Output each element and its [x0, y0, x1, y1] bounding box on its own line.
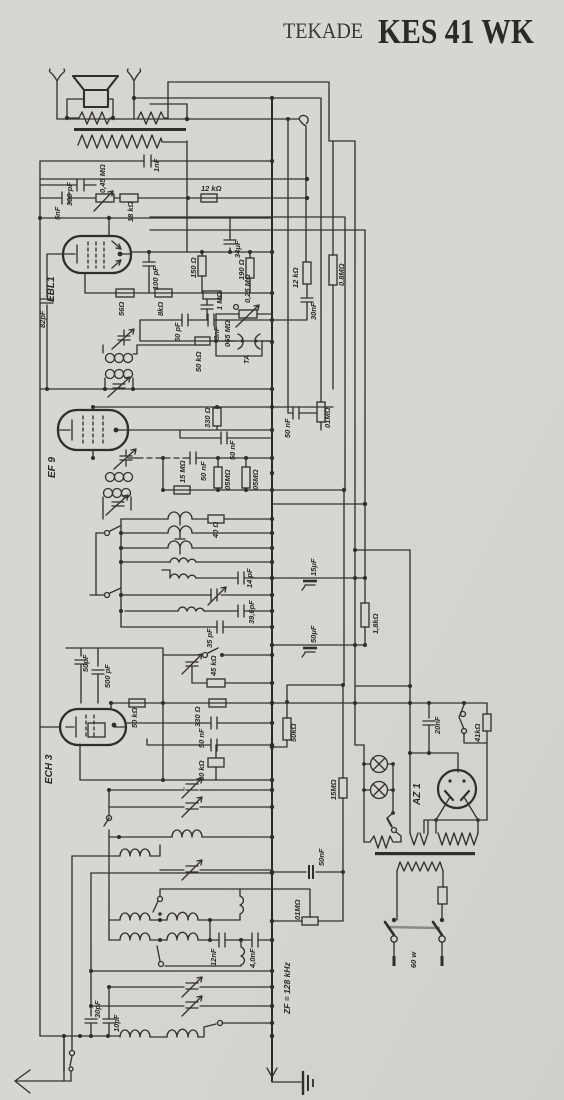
- node dot speaker right: [111, 116, 115, 120]
- svg-text:AZ 1: AZ 1: [412, 783, 423, 806]
- svg-text:KES 41 WK: KES 41 WK: [378, 12, 534, 51]
- tube EF9 bottom lead: [92, 450, 94, 458]
- capacitor 1nF: [144, 155, 151, 167]
- wire row y702 power: [272, 702, 487, 704]
- wire row y533: [121, 532, 272, 534]
- capacitor 10pF: [103, 1019, 115, 1023]
- wire riser x187: [186, 104, 188, 119]
- svg-text:1nF: 1nF: [152, 158, 161, 172]
- svg-text:1,8kΩ: 1,8kΩ: [371, 613, 380, 634]
- wire row y780: [80, 779, 272, 781]
- svg-text:100 pF: 100 pF: [151, 266, 160, 290]
- capacitor 5nF: [40, 192, 95, 204]
- wire row y1006: [91, 1005, 272, 1007]
- IF1 trimmer cap: [112, 329, 134, 349]
- svg-text:330 Ω: 330 Ω: [193, 706, 202, 727]
- wire riser x168: [167, 82, 169, 118]
- wire row y252 anode: [131, 251, 272, 253]
- capacitor 30nF: [272, 284, 313, 320]
- coil L4: [170, 558, 196, 562]
- coil L1: [168, 512, 192, 525]
- svg-text:065 MΩ: 065 MΩ: [223, 320, 232, 347]
- svg-text:0,45 MΩ: 0,45 MΩ: [98, 164, 107, 193]
- svg-text:4,0nF: 4,0nF: [248, 948, 257, 969]
- wire row y987: [109, 986, 272, 988]
- svg-text:10pF: 10pF: [112, 1014, 121, 1032]
- resistor 05MOhm a: [217, 458, 219, 467]
- resistor 190Ohm vertical: [249, 252, 251, 293]
- wire row y940: [109, 939, 272, 941]
- vertical x109 lower: [108, 987, 110, 1036]
- resistor 41kOhm: [483, 714, 491, 731]
- svg-text:34μF: 34μF: [233, 240, 242, 258]
- svg-text:EF 9: EF 9: [47, 456, 58, 478]
- left rail x40: [39, 161, 41, 1036]
- vertical x109 osc: [72, 837, 109, 1050]
- switch S3: [163, 648, 218, 655]
- resistor 40Ohm: [208, 515, 224, 523]
- coil osc2b: [167, 932, 198, 940]
- electrolytic 34uF: [224, 218, 236, 252]
- svg-text:50 pF: 50 pF: [173, 322, 182, 342]
- svg-text:12nF: 12nF: [209, 948, 218, 966]
- svg-text:14 pF: 14 pF: [245, 568, 254, 588]
- tube AZ1: [438, 770, 476, 808]
- link x210: [209, 920, 211, 940]
- svg-text:41kΩ: 41kΩ: [473, 723, 482, 743]
- node dots y252: [147, 250, 151, 254]
- coil L6: [178, 607, 204, 611]
- capacitor 39,6pF: [238, 605, 244, 617]
- wire row y627: [121, 626, 272, 628]
- svg-text:TEKADE: TEKADE: [283, 18, 363, 43]
- lamp feed wire y753: [410, 753, 458, 772]
- svg-text:0,25 MΩ: 0,25 MΩ: [243, 274, 252, 303]
- antenna arrow bottom: [15, 1036, 71, 1093]
- coil bank dots: [119, 531, 123, 535]
- capacitor 50nF a: [180, 430, 272, 444]
- capacitor 35pF: [217, 621, 223, 633]
- svg-text:56Ω: 56Ω: [117, 302, 126, 316]
- resistor 50kOhm bus: [283, 718, 291, 740]
- IF2 winding bottom: [104, 489, 113, 498]
- svg-text:50μF: 50μF: [309, 625, 318, 643]
- electrolytic cap: [201, 299, 213, 320]
- right vertical x283: [287, 119, 289, 413]
- IF2 winding top: [106, 473, 115, 482]
- capacitor 40nF: [252, 933, 258, 947]
- right vertical x367: [150, 230, 365, 645]
- wire row y342: [140, 320, 272, 341]
- tube ECH3 bottom lead: [79, 744, 81, 780]
- svg-text:15μF: 15μF: [309, 558, 318, 576]
- wire row y837: [109, 830, 272, 837]
- tube bottom lead: [84, 273, 86, 293]
- wire row y172: [40, 178, 307, 180]
- wire row y293: [85, 292, 272, 294]
- resistor 330Ohm b: [209, 699, 226, 707]
- svg-text:05MΩ: 05MΩ: [223, 469, 232, 490]
- wire row y920: [109, 919, 240, 921]
- capacitor 500pF: [92, 648, 104, 703]
- resistor 18kOhm: [120, 194, 138, 202]
- lamp 1: [371, 756, 388, 773]
- tube EBL1: [63, 236, 131, 273]
- dial coil zigzag: [78, 135, 187, 148]
- coil bt1: [120, 1030, 150, 1037]
- wire row y119: [57, 118, 272, 120]
- switch S5: [158, 897, 163, 902]
- capacitor 50nF right: [288, 407, 305, 419]
- resistor 30kOhm: [208, 758, 224, 767]
- switch S10: [387, 813, 393, 818]
- svg-text:01MΩ: 01MΩ: [323, 407, 332, 428]
- svg-text:1 MΩ: 1 MΩ: [215, 291, 224, 310]
- wire row y578: [170, 577, 272, 579]
- resistor 01MOhm right: [317, 402, 325, 422]
- svg-text:15MΩ: 15MΩ: [329, 779, 338, 800]
- node dot tube top: [107, 216, 111, 220]
- resistor 05MOhm b: [242, 467, 250, 488]
- coil bt2: [150, 1036, 167, 1038]
- IF1 winding top: [102, 345, 104, 353]
- capacitor 3nF: [208, 314, 214, 326]
- capacitor 50pF: [182, 314, 188, 326]
- mains pin L: [393, 942, 395, 956]
- heater winding c: [438, 833, 478, 845]
- ferrite bar: [74, 128, 186, 131]
- switch S1: [96, 526, 120, 533]
- left rail bottom link: [40, 1036, 64, 1071]
- IF2 trimmer 2: [106, 495, 128, 515]
- wire row y82 to right corner: [168, 82, 410, 833]
- wire row y548: [121, 547, 272, 549]
- capacitor 50nF mains: [272, 871, 343, 873]
- wire row y104: [150, 104, 333, 255]
- trimmer T2: [182, 778, 202, 798]
- electrolytic 50uF: [303, 647, 317, 650]
- wire row y790: [109, 789, 272, 791]
- wire row y98: [134, 97, 320, 99]
- bus junction dots extra: [270, 291, 274, 295]
- coil L7: [172, 830, 202, 837]
- svg-text:45 kΩ: 45 kΩ: [209, 655, 218, 677]
- switch S2: [90, 588, 121, 595]
- wire osc feed to 01MOhm: [240, 889, 310, 917]
- switch S6: [159, 962, 164, 967]
- resistor 50kOhm IF: [195, 337, 210, 345]
- wire row y595 trimmer: [121, 594, 272, 596]
- switch S4: [104, 790, 109, 826]
- osc vertical coil b: [165, 940, 244, 966]
- svg-text:50 nF: 50 nF: [228, 440, 237, 460]
- resistor 01MOhm mains: [302, 917, 318, 925]
- svg-text:50kΩ: 50kΩ: [289, 723, 298, 742]
- capacitor 82pF: [41, 254, 63, 389]
- coil osc1b: [167, 912, 198, 920]
- lamp rail right: [392, 764, 394, 813]
- wire row y430: [128, 429, 272, 431]
- switch S8: [70, 1051, 75, 1056]
- switch S7: [198, 1024, 216, 1037]
- wire row y490: [163, 489, 344, 491]
- osc top loop y889: [160, 889, 240, 896]
- coil osc2a: [120, 933, 150, 940]
- IF1 trimmer cap 2: [108, 377, 130, 397]
- lamp rail wire y745: [355, 745, 364, 842]
- tube ECH3: [60, 709, 126, 745]
- node column x160: [158, 918, 162, 922]
- svg-text:50 nF: 50 nF: [283, 418, 292, 438]
- svg-text:50 kΩ: 50 kΩ: [130, 707, 139, 728]
- trimmer cap osc: [182, 654, 202, 683]
- wire row y807: [109, 806, 272, 808]
- wire row y648: [66, 648, 163, 780]
- loudspeaker LS: [73, 76, 118, 107]
- trimmer T3: [182, 797, 202, 817]
- capacitor 20nF: [423, 703, 435, 753]
- coil L3: [168, 541, 192, 554]
- electrolytic 15uF: [303, 580, 317, 583]
- capacitor 300pF: [40, 179, 96, 191]
- capacitor 30pF: [85, 1006, 97, 1036]
- switch S9: [459, 703, 487, 729]
- wire row y389: [40, 388, 272, 390]
- fuse resistor: [438, 887, 447, 904]
- svg-text:20nF: 20nF: [433, 716, 442, 735]
- svg-text:ECH 3: ECH 3: [44, 754, 55, 784]
- coil L8: [72, 845, 160, 856]
- antenna 2: [128, 69, 141, 119]
- svg-text:01MΩ: 01MΩ: [293, 899, 302, 920]
- resistor 50kOhm grid: [129, 699, 145, 707]
- wire row y200: [114, 197, 307, 199]
- heater winding a: [364, 836, 401, 848]
- resistor 8kOhm: [155, 289, 172, 297]
- ground symbol: [302, 1071, 304, 1095]
- pickup terminals TA: [238, 334, 260, 349]
- capacitor 12nF: [219, 933, 225, 947]
- resistor 330Ohm vertical: [213, 408, 221, 426]
- bus to ground: [272, 1081, 301, 1083]
- right vertical x345: [150, 217, 345, 490]
- IF2 trimmer: [114, 449, 136, 469]
- wire curl: [272, 115, 308, 262]
- resistor 150Ohm vertical: [201, 252, 203, 293]
- wire row y971: [91, 970, 272, 972]
- node dot x187: [185, 117, 189, 121]
- coil rail x121: [120, 519, 122, 627]
- svg-text:12 kΩ: 12 kΩ: [291, 267, 300, 288]
- coil osc1a: [120, 913, 150, 920]
- resistor 1MOhm: [203, 291, 221, 299]
- node dot speaker left: [65, 116, 69, 120]
- trimmer T6: [182, 996, 202, 1016]
- wire row y873: [91, 872, 272, 874]
- speaker wire right: [108, 99, 113, 118]
- capacitor 50nF d: [147, 739, 272, 751]
- resistor 1,8kOhm vertical: [361, 603, 369, 627]
- wire row y218: [40, 217, 272, 219]
- svg-text:30pF: 30pF: [93, 1000, 102, 1018]
- resistor zigzag R-ant: [138, 112, 168, 124]
- trimmer T5: [182, 977, 202, 997]
- svg-text:40 Ω: 40 Ω: [211, 522, 220, 539]
- resistor 12kOhm: [201, 194, 217, 202]
- speaker wire left: [67, 99, 84, 118]
- wire row y578 right 15uF: [272, 577, 365, 579]
- capacitor 50nF b: [128, 457, 272, 459]
- wire row y611: [125, 610, 272, 612]
- tube top lead: [108, 218, 110, 236]
- resistor 45kOhm: [207, 679, 225, 687]
- wire row y155: [40, 160, 272, 162]
- svg-text:150 Ω: 150 Ω: [189, 257, 198, 278]
- svg-text:05MΩ: 05MΩ: [251, 469, 260, 490]
- resistor zigzag R-speaker: [67, 112, 113, 124]
- wire row y320: [140, 319, 272, 321]
- wire row y504: [272, 503, 365, 505]
- resistor 15MOhm: [174, 486, 190, 494]
- capacitor 50pF grid: [75, 648, 87, 703]
- primary winding: [397, 862, 443, 871]
- wire row y519: [121, 518, 272, 520]
- svg-text:15 MΩ: 15 MΩ: [178, 460, 187, 483]
- switch rail x96: [95, 533, 97, 595]
- mains pin N: [441, 942, 443, 956]
- svg-text:50 kΩ: 50 kΩ: [194, 351, 203, 372]
- svg-text:30nF: 30nF: [309, 302, 318, 320]
- IF1 winding bottom: [106, 370, 115, 379]
- svg-text:ZF = 128 kHz: ZF = 128 kHz: [282, 962, 292, 1015]
- resistor 0,8MOhm vertical: [329, 255, 337, 285]
- svg-text:35 pF: 35 pF: [205, 628, 214, 648]
- vertical x91: [90, 873, 92, 1006]
- svg-text:82pF: 82pF: [38, 310, 47, 328]
- wire row y703: [111, 702, 272, 704]
- resistor 56Ohm: [116, 289, 134, 297]
- heater winding b: [410, 833, 428, 845]
- coil L5: [162, 570, 196, 578]
- wire row y1036: [64, 1035, 120, 1037]
- trimmer T4: [160, 860, 272, 880]
- wire row y562: [123, 561, 272, 563]
- svg-text:50nF: 50nF: [317, 848, 326, 866]
- coil L2: [168, 526, 192, 539]
- wire row y407: [93, 406, 333, 408]
- potentiometer 0,25MOhm: [216, 314, 272, 341]
- arrow barbs bus: [267, 1068, 277, 1077]
- svg-text:50pF: 50pF: [81, 654, 90, 672]
- svg-text:60 w: 60 w: [409, 951, 418, 968]
- node dot antenna2: [132, 96, 136, 100]
- wire row y645 50uF: [272, 644, 365, 646]
- svg-text:500 pF: 500 pF: [103, 664, 112, 688]
- main bus x272: [271, 98, 273, 1082]
- svg-text:39,6pF: 39,6pF: [247, 600, 256, 624]
- resistor 15MOhm vertical: [339, 778, 347, 798]
- resistor 12kOhm vertical: [303, 262, 311, 284]
- wire row y723: [126, 717, 272, 729]
- svg-text:12 kΩ: 12 kΩ: [201, 184, 222, 193]
- TA enclosure loop: [216, 341, 262, 356]
- osc vertical coil a: [240, 889, 243, 920]
- lamp 2: [371, 782, 388, 799]
- mains switch: [392, 918, 396, 922]
- antenna 1: [50, 69, 65, 119]
- trimmer cap T1: [208, 587, 226, 605]
- svg-text:18 kΩ: 18 kΩ: [126, 201, 135, 222]
- capacitor 14pF: [238, 572, 244, 584]
- potentiometer 0,45MOhm: [96, 194, 114, 202]
- svg-text:330 Ω: 330 Ω: [203, 407, 212, 428]
- svg-text:8kΩ: 8kΩ: [156, 302, 165, 316]
- tube EF9: [92, 407, 94, 410]
- transformer core: [375, 852, 475, 855]
- capacitor 100pF: [143, 252, 155, 293]
- svg-text:50 nF: 50 nF: [199, 461, 208, 481]
- svg-text:TA: TA: [242, 355, 251, 364]
